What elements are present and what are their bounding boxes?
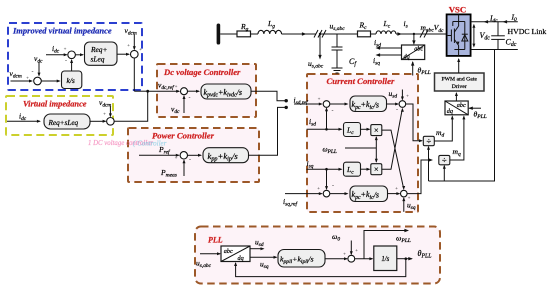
plus sign virtual summer	[103, 113, 106, 118]
title PLL	[208, 236, 223, 245]
plus sign sum4 bottom	[408, 197, 411, 202]
svg-text:Cf: Cf	[349, 57, 357, 68]
resistor R_c	[358, 21, 371, 37]
svg-text:-: -	[65, 59, 67, 65]
label theta_PLL (current transform)	[418, 66, 431, 77]
v_dcm arrow into summer (virtual)	[109, 107, 112, 118]
integrator 1/s block	[374, 246, 397, 271]
label P_meas	[160, 168, 177, 179]
wire summer to k/s	[41, 80, 60, 83]
svg-text:md: md	[436, 128, 444, 139]
svg-text:Improved virtual impedance: Improved virtual impedance	[12, 26, 112, 36]
svg-text:Lc: Lc	[383, 19, 391, 30]
output i_sq from transform	[376, 53, 402, 56]
svg-text:+: +	[103, 113, 106, 118]
omega wire to multipliers	[345, 147, 376, 149]
label i_sd,ref	[294, 96, 310, 107]
label theta_PLL (export)	[418, 249, 432, 260]
wire bus to Rg	[220, 33, 237, 35]
svg-text:+: +	[318, 98, 321, 103]
svg-text:-: -	[332, 184, 334, 190]
minus sign power summer	[189, 158, 191, 164]
svg-text:θPLL: θPLL	[418, 66, 431, 77]
wire summer to Req+sLeq	[75, 53, 84, 56]
label omega_PLL (export)	[396, 234, 411, 245]
summer (i_dc - k/s)	[68, 51, 76, 59]
wire divider1 to dq-abc	[434, 115, 454, 141]
cross wire x2 to sum2	[382, 108, 404, 170]
wire i_dc into Req block	[7, 120, 41, 123]
svg-text:+: +	[395, 187, 398, 192]
improved virtual impedance box (blue dashed)	[8, 23, 142, 90]
wire dc PI output to switch contact	[251, 91, 285, 101]
summer (virtual impedance)	[107, 118, 115, 126]
svg-text:θPLL: θPLL	[474, 110, 487, 121]
title Current Controller	[327, 76, 395, 86]
output i_sd from transform	[376, 46, 402, 49]
PLL summer	[348, 255, 355, 262]
abc-dq current transform	[402, 45, 425, 60]
wire Rc to Lc	[371, 33, 377, 35]
label i_dc (virtual)	[19, 112, 27, 123]
wire PLL PI to summer	[325, 257, 348, 260]
u_sq feedforward stub into sum4	[402, 197, 405, 212]
label u_sq (feedforward)	[407, 201, 416, 212]
wire power PI output to switch contact	[249, 107, 286, 155]
PI block k_pc+k_ic/s (q)	[350, 186, 388, 202]
three-phase slashes m_abc	[420, 30, 428, 38]
label m_q	[453, 147, 461, 158]
u_sq output of PLL transform	[250, 256, 278, 259]
wire Rg to Lg	[251, 33, 259, 35]
i_sq tap junction	[325, 168, 328, 171]
svg-text:Dc voltage Controller: Dc voltage Controller	[163, 67, 241, 77]
wire Lc2 to multiplier2	[361, 168, 371, 171]
power controller box (brown dashed, pink fill)	[128, 128, 259, 182]
P_meas arrow into power summer	[183, 159, 186, 176]
PLL box (brown dashed, pink fill)	[195, 227, 440, 284]
wire dq-abc to PWM box	[455, 92, 458, 101]
svg-text:k/s: k/s	[67, 76, 75, 85]
svg-text:abc: abc	[457, 102, 466, 109]
theta_PLL output wire	[397, 257, 413, 260]
plus sign output summer2	[139, 48, 142, 53]
svg-text:isd: isd	[374, 38, 381, 49]
current controller box (brown dashed, pink fill)	[307, 74, 418, 212]
wire PI2 to sum4	[388, 192, 401, 195]
cross wire x1 to sum4	[382, 130, 405, 190]
power summer	[180, 152, 187, 159]
svg-text:abc: abc	[224, 248, 233, 255]
svg-text:isq,ref: isq,ref	[283, 197, 299, 208]
svg-text:Req+: Req+	[90, 45, 107, 54]
svg-text:Idc: Idc	[489, 14, 498, 25]
svg-text:1/s: 1/s	[381, 256, 389, 263]
label VSC	[449, 5, 467, 15]
svg-text:dq: dq	[238, 255, 244, 262]
svg-text:+: +	[343, 253, 346, 258]
svg-text:Vdc: Vdc	[480, 31, 491, 42]
wire node to dc summer	[148, 90, 181, 93]
svg-text:Lg: Lg	[267, 19, 275, 30]
svg-text:+: +	[406, 95, 409, 100]
PI block k_pp+k_ip/s	[203, 148, 249, 163]
wire node to Rc	[320, 33, 358, 35]
divider block m_d	[423, 136, 434, 146]
label i_dc (improved)	[52, 44, 60, 55]
resistor R_g	[237, 22, 251, 37]
arrow I_0	[503, 20, 508, 23]
svg-text:Req+sLeq: Req+sLeq	[48, 119, 79, 127]
svg-text:is: is	[404, 19, 408, 30]
wire Lg to node with arrow	[282, 32, 317, 35]
wire dc summer to PI	[188, 90, 201, 93]
minus sign sum2 bottom	[396, 107, 398, 113]
grid bus bar	[217, 24, 221, 45]
plus sign sum1	[318, 98, 321, 103]
wire PLL summer to 1/s	[355, 257, 374, 260]
svg-text:Driver: Driver	[452, 84, 467, 90]
svg-text:dq: dq	[404, 53, 410, 60]
wire sum3 to PI2	[330, 192, 349, 195]
abc-dq PLL transform	[221, 246, 250, 262]
svg-text:×: ×	[374, 125, 379, 135]
u_sq output wire to divider2	[407, 159, 433, 194]
label I_dc	[489, 14, 498, 25]
wire PWM to VSC	[457, 58, 460, 73]
svg-text:+: +	[139, 48, 142, 53]
node i_s junction	[413, 33, 415, 35]
label theta_PLL (dq-abc)	[474, 110, 487, 121]
svg-text:PWM and Gate: PWM and Gate	[442, 77, 478, 83]
output summer (improved)	[131, 50, 139, 58]
wire i_sd,ref into current summer 1	[294, 103, 323, 106]
theta_PLL stub into dq-abc	[468, 107, 481, 110]
u_s,abc measurement tap arrow down	[318, 34, 321, 60]
svg-text:PLL: PLL	[208, 236, 223, 245]
dc summer	[181, 88, 188, 95]
ghost text Controller (cyan)	[133, 140, 167, 148]
plus sign v_dcm	[26, 77, 29, 82]
PLL feedback wire	[234, 259, 406, 277]
ghost text DC voltage controller (pink)	[88, 140, 153, 147]
svg-text:+: +	[127, 44, 130, 49]
arrow I_dc	[484, 20, 489, 23]
label u_s,abc (measurement)	[308, 59, 324, 70]
label i_sq,ref	[283, 197, 299, 208]
wire sum1 to PI1	[330, 103, 349, 106]
svg-text:abc: abc	[414, 46, 423, 53]
minus sign dc summer	[189, 96, 191, 102]
i_sd tap junction	[325, 128, 328, 131]
current summer 2 (d-axis out)	[399, 101, 406, 108]
VSC converter block	[447, 14, 471, 56]
node u_s,abc junction	[319, 33, 321, 35]
label omega_PLL (controller)	[323, 145, 337, 156]
dq-abc modulation transform	[445, 101, 468, 115]
current summer 4 (q-axis out)	[401, 190, 408, 197]
node v_dc,ref junction	[146, 90, 149, 93]
label u_sd (feedforward)	[389, 89, 398, 100]
label I_0	[511, 13, 518, 24]
V_dc measurement double arrow	[472, 24, 475, 48]
minus sign sum3	[332, 184, 334, 190]
divider block m_q	[439, 155, 450, 165]
Lc block (d-axis)	[344, 123, 361, 137]
plus sign PLL summer left	[343, 253, 346, 258]
svg-text:+: +	[355, 249, 358, 254]
label m_d	[436, 128, 444, 139]
svg-text:+: +	[64, 48, 67, 53]
svg-text:÷: ÷	[442, 155, 447, 165]
svg-text:-: -	[332, 109, 334, 115]
svg-text:dq: dq	[447, 108, 453, 115]
PI block k_pc+k_ic/s (d)	[350, 96, 387, 112]
plus sign i_dc	[64, 48, 67, 53]
label i_sd (measured)	[374, 38, 381, 49]
label i_s	[404, 19, 408, 30]
theta junction	[405, 257, 408, 260]
theta_PLL into current transform	[411, 61, 414, 76]
i_sd tap up into sum1	[325, 107, 328, 129]
plus sign sum3	[317, 187, 320, 192]
svg-text:-: -	[32, 70, 34, 76]
current summer 3 (q-axis)	[323, 190, 330, 197]
wire P_ref to power summer	[139, 154, 180, 157]
label m_abc V_dc	[421, 23, 445, 34]
plus sign sum2 top	[406, 95, 409, 100]
wire i_sd with tap to sum1	[307, 128, 343, 131]
svg-text:us,abc: us,abc	[330, 22, 346, 33]
wire i_sq,ref into sum3	[285, 192, 323, 195]
label v_dcm (input left)	[10, 69, 22, 80]
plus sign sum4 left	[395, 187, 398, 192]
i_sq tap down into sum3	[325, 169, 328, 190]
svg-text:isq: isq	[373, 56, 380, 67]
plus sign power summer	[175, 157, 178, 162]
wire i_dc to summer	[46, 53, 68, 56]
V_dc feedback rail to dividers	[429, 50, 495, 182]
title Dc voltage Controller	[163, 67, 241, 77]
svg-text:-: -	[396, 107, 398, 113]
virtual impedance box (yellow dashed)	[6, 96, 113, 135]
v_dcm arrow into output summer	[133, 35, 136, 51]
wire virtual output to v_dc,ref node	[114, 91, 148, 121]
label u_s,abc (top)	[330, 22, 346, 33]
label v_dc (dc controller)	[171, 105, 180, 116]
PI block k_ppll+k_ipll/s	[278, 250, 325, 268]
multiplier x1	[371, 125, 382, 136]
u_sd feedforward stub into sum2	[401, 90, 404, 101]
wire Lc to i_s node	[396, 32, 414, 35]
svg-text:Cdc: Cdc	[506, 38, 517, 49]
IGBT symbol inside VSC	[448, 14, 468, 56]
capacitor C_dc	[491, 22, 505, 50]
plus sign output summer	[127, 44, 130, 49]
switch contact upper	[285, 99, 288, 102]
PWM and Gate Driver box	[435, 73, 485, 91]
title Virtual impedance	[23, 100, 87, 109]
inductor L_c	[376, 19, 396, 34]
Req+sLeq block (virtual)	[44, 114, 90, 129]
svg-text:mabcVdc: mabcVdc	[421, 23, 445, 34]
Lc block (q-axis)	[344, 162, 361, 176]
title Improved virtual impedance	[12, 26, 112, 36]
wire improved output down to v_dc,ref node	[134, 58, 147, 91]
filter capacitor C_f	[332, 34, 358, 68]
label v_dcm (top right)	[125, 26, 137, 37]
k/s output up into current summer	[70, 59, 73, 71]
label u_sd (PLL)	[255, 238, 264, 249]
wire VSC bottom rail	[471, 49, 518, 51]
svg-text:VSC: VSC	[449, 5, 467, 15]
svg-text:sLeq: sLeq	[91, 55, 105, 64]
label i_sd (controller input)	[309, 117, 316, 128]
current measurement tap into abc-dq	[412, 34, 415, 45]
summer (v_dcm - v_dc)	[34, 77, 42, 85]
v_dc input arrow into summer	[38, 62, 41, 77]
svg-text:×: ×	[374, 164, 379, 174]
V_dc arrow into divider2	[443, 165, 446, 181]
current summer 1 (d-axis)	[323, 101, 330, 108]
Req+sLeq block (improved)	[85, 42, 118, 65]
omega vertical to x1 and x2	[375, 136, 378, 163]
wire divider2 to dq-abc	[450, 115, 466, 160]
label i_sq (controller input)	[307, 159, 314, 170]
svg-text:+: +	[26, 77, 29, 82]
svg-text:Current Controller: Current Controller	[327, 76, 395, 86]
wire v_dcm to sum	[11, 80, 34, 83]
wire VSC top rail	[471, 21, 518, 23]
label V_dc (dc link)	[480, 31, 491, 42]
label i_sq (measured)	[373, 56, 380, 67]
wire power summer to PI	[188, 154, 203, 157]
plus sign PLL summer top	[355, 249, 358, 254]
svg-text:-: -	[189, 158, 191, 164]
ground under C_f	[332, 68, 343, 73]
wire i_sq with tap to Lc2	[307, 168, 343, 171]
label C_dc	[506, 38, 517, 49]
minus sign v_dc	[32, 70, 34, 76]
svg-text:Virtual impedance: Virtual impedance	[23, 100, 87, 109]
svg-text:mq: mq	[453, 147, 461, 158]
svg-text:-: -	[189, 96, 191, 102]
V_dc arrow into divider1	[427, 146, 430, 181]
switch contact lower	[285, 106, 288, 109]
omega_0 arrow into PLL summer	[350, 241, 353, 256]
svg-text:Rc: Rc	[359, 21, 368, 32]
plus sign dc summer	[175, 85, 178, 90]
wire u_s,abc into PLL transform	[200, 252, 221, 255]
svg-text:Power Controller: Power Controller	[152, 131, 215, 141]
inductor L_g	[258, 19, 282, 34]
wire Req to summer (virtual)	[90, 120, 107, 123]
v_dc feedback arrow into dc summer	[183, 95, 186, 113]
wire Req block to output summer	[117, 53, 130, 56]
wire node to VSC with modulation slashes	[414, 33, 447, 35]
integrator k/s block	[62, 71, 82, 89]
omega_PLL tap	[364, 229, 409, 259]
svg-text:+: +	[175, 85, 178, 90]
label HVDC Link	[508, 27, 547, 36]
label u_sq (PLL)	[260, 260, 269, 271]
svg-text:+: +	[317, 187, 320, 192]
label v_dc (improved)	[34, 54, 43, 65]
u_sd output wire to divider1	[406, 104, 423, 142]
wire Lc1 to multiplier1	[361, 128, 371, 131]
label u_s,abc (PLL input)	[196, 259, 212, 270]
svg-text:HVDC Link: HVDC Link	[508, 27, 547, 36]
minus sign sum1	[332, 109, 334, 115]
wire PI1 to sum2	[387, 103, 400, 106]
PI block k_pvdc+k_ivdc/s	[201, 84, 251, 99]
svg-text:+: +	[175, 157, 178, 162]
title Power Controller	[152, 131, 215, 141]
svg-text:÷: ÷	[426, 136, 431, 146]
minus sign k/s	[65, 59, 67, 65]
multiplier x2	[371, 164, 382, 175]
label v_dc,ref	[158, 81, 175, 92]
label omega_0	[332, 232, 340, 243]
label v_dcm (virtual)	[99, 98, 111, 109]
three-phase slashes at u_s,abc	[314, 30, 326, 38]
svg-text:us,abc: us,abc	[308, 59, 324, 70]
dc voltage controller box (brown dashed, pink fill)	[157, 64, 256, 117]
u_sd output of PLL transform	[250, 247, 265, 250]
label P_ref	[158, 145, 171, 156]
